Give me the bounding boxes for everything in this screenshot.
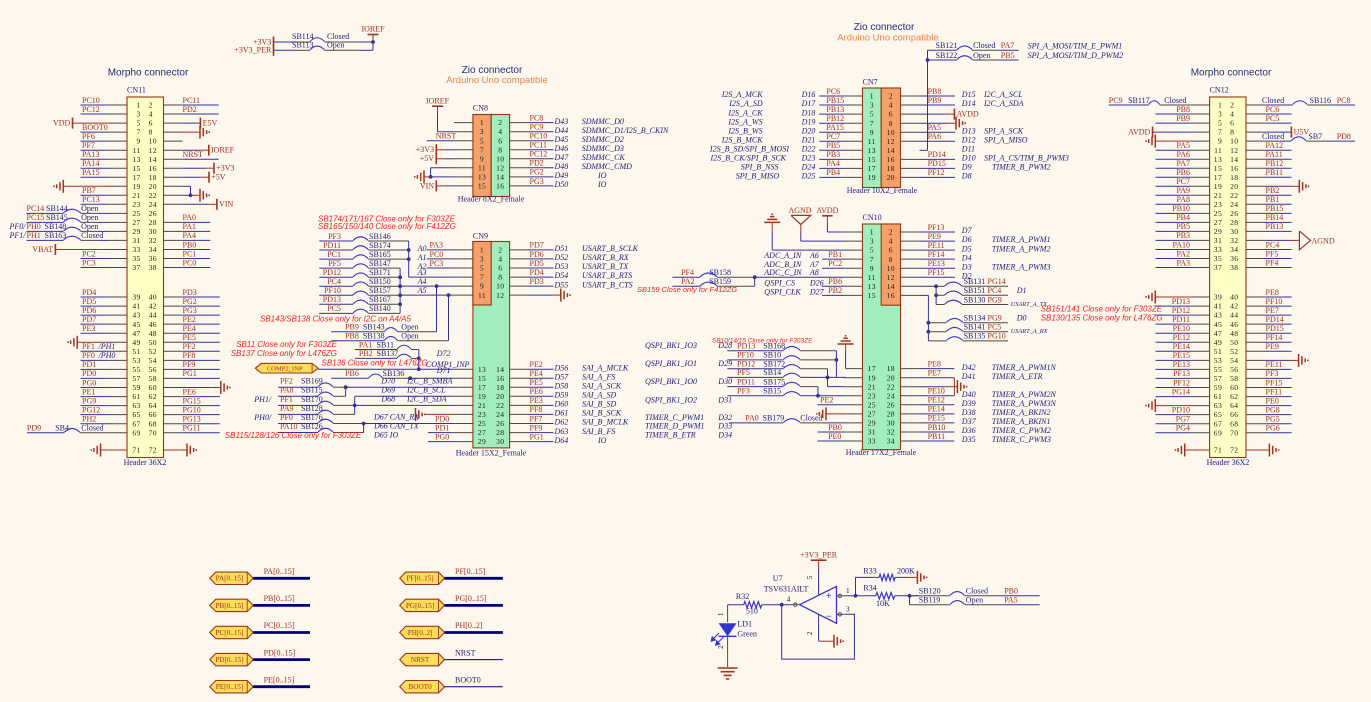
junction pin19 node (826, 376, 830, 380)
svg-text:PE0: PE0 (1266, 396, 1279, 405)
wire CN11 pins 20-22 ground tie (164, 186, 191, 195)
solder bridge SB171 net PD12 (319, 268, 400, 277)
CN12 pin 33 net PA10 (1156, 240, 1210, 249)
svg-text:13: 13 (868, 282, 876, 291)
svg-text:PG[0..15]: PG[0..15] (455, 594, 487, 603)
CN11 pin 31 net PH1 solder bridge SB163 (9, 231, 128, 240)
CN11 pin 9 net PF6 (81, 132, 128, 141)
svg-text:D64: D64 (554, 436, 569, 445)
svg-text:PC5: PC5 (988, 323, 1002, 332)
svg-text:D59: D59 (554, 391, 569, 400)
svg-text:PF13: PF13 (928, 223, 945, 232)
svg-text:PE6: PE6 (530, 387, 543, 396)
svg-text:D20: D20 (801, 126, 816, 135)
svg-text:12: 12 (149, 146, 157, 155)
solder bridge SB122 net PB5 SPI_A_MOSI/TIM_D_PWM2 (928, 51, 1124, 60)
svg-text:PF15: PF15 (928, 268, 945, 277)
CN11 pin 53 net PF0/PH0 (81, 351, 128, 360)
svg-text:32: 32 (887, 428, 895, 437)
svg-text:PB0: PB0 (1004, 587, 1018, 596)
svg-text:15: 15 (1214, 164, 1222, 173)
ground at CN11 pin 49 (67, 336, 127, 349)
svg-text:28: 28 (1230, 218, 1238, 227)
CN8 pin 2 net PC8 D43 SDMMC_D0 (510, 113, 624, 125)
svg-text:PC9: PC9 (1109, 96, 1123, 105)
svg-text:PA3: PA3 (430, 241, 444, 250)
junction R33/R34 node (854, 594, 858, 598)
svg-text:6: 6 (498, 136, 502, 145)
svg-text:Arduino Uno compatible: Arduino Uno compatible (837, 33, 938, 44)
svg-text:D37: D37 (961, 417, 977, 426)
svg-text:PF7: PF7 (530, 414, 543, 423)
svg-text:PB8: PB8 (345, 332, 359, 341)
svg-text:SDMMC_D0: SDMMC_D0 (582, 117, 624, 126)
svg-text:D35: D35 (961, 435, 976, 444)
svg-text:37: 37 (132, 263, 140, 272)
CN7 pin 2 net PB8 D15 I2C_A_SCL (901, 87, 1024, 99)
CN12 pin 19 net PC7 (1156, 177, 1210, 186)
svg-text:D36: D36 (961, 426, 976, 435)
CN9 pin 9 node A4 (400, 277, 473, 286)
solder bridge SB135 net PG10 (928, 332, 1008, 341)
power AVDD at CN10 pin 1 (816, 206, 862, 232)
svg-text:27: 27 (868, 410, 876, 419)
solder bridge SB175 net PD11 (645, 377, 800, 387)
svg-text:SB151: SB151 (964, 286, 986, 295)
note SB130/135 Close only for L476ZG (1041, 314, 1163, 323)
LED LD1 pin 1 number (716, 612, 725, 616)
CN12 pin 70 net PG6 (1246, 424, 1292, 433)
svg-text:PE15: PE15 (928, 414, 945, 423)
svg-text:PC8: PC8 (1337, 96, 1351, 105)
svg-text:7: 7 (1218, 128, 1222, 137)
svg-text:SB163: SB163 (45, 231, 67, 240)
svg-text:+5V: +5V (420, 154, 435, 163)
svg-text:3: 3 (137, 110, 141, 119)
CN12 pin 50 net PF14 (1246, 333, 1292, 342)
svg-text:PG4: PG4 (1176, 424, 1190, 433)
svg-text:12: 12 (496, 291, 504, 300)
svg-text:15: 15 (132, 164, 140, 173)
power AGND at CN10 pin 3 (788, 206, 862, 241)
svg-text:PA15: PA15 (826, 123, 844, 132)
svg-text:26: 26 (149, 209, 157, 218)
svg-text:23: 23 (132, 200, 140, 209)
U7 pin 3 inverting stub (837, 604, 851, 616)
svg-text:PD7: PD7 (530, 241, 544, 250)
svg-text:PA0: PA0 (745, 414, 759, 423)
svg-text:D15: D15 (961, 90, 976, 99)
svg-text:8: 8 (498, 273, 502, 282)
svg-text:PE6: PE6 (183, 387, 196, 396)
svg-text:17: 17 (132, 173, 140, 182)
wire U7 pin1 to node (844, 595, 875, 597)
solder bridge SB147 net PF5 (319, 259, 400, 268)
earth ground at CN10 pin 5 (764, 213, 862, 250)
svg-text:D52: D52 (554, 253, 569, 262)
port PD[0..15] (210, 653, 253, 665)
U7 pin 4 output-left stub (787, 595, 800, 607)
bus PE[0..15] (253, 675, 310, 686)
ground at CN8 pin 13 (414, 170, 431, 183)
svg-text:TIMER_D_PWM1: TIMER_D_PWM1 (645, 422, 705, 431)
svg-text:34: 34 (887, 437, 895, 446)
svg-text:6: 6 (149, 119, 153, 128)
svg-text:4: 4 (889, 101, 893, 110)
svg-text:11: 11 (868, 273, 876, 282)
svg-text:SB15: SB15 (763, 387, 781, 396)
svg-text:QSPI_BK1_IO2: QSPI_BK1_IO2 (645, 395, 697, 404)
CN11 pin 52 net PF2 (164, 342, 220, 351)
svg-text:Morpho connector: Morpho connector (108, 68, 189, 79)
junction IOREF node (371, 40, 375, 44)
svg-text:PF10: PF10 (737, 351, 754, 360)
svg-text:PB9: PB9 (345, 323, 359, 332)
svg-text:13: 13 (478, 173, 486, 182)
power +3V3 at CN11 pin 16 (164, 163, 235, 174)
svg-text:PF11: PF11 (1266, 387, 1283, 396)
solder bridge SB11 net PA1 (355, 340, 419, 349)
svg-text:SB158: SB158 (709, 268, 731, 277)
svg-text:24: 24 (887, 391, 895, 400)
svg-text:15: 15 (868, 155, 876, 164)
svg-text:12: 12 (496, 163, 504, 172)
svg-text:PA0: PA0 (183, 213, 197, 222)
CN10 pin 2 net PF13 D7 (901, 223, 973, 235)
svg-text:PB10: PB10 (1172, 204, 1190, 213)
CN10 pin 26 net PE12 D39 TIMER_A_PWM3N (901, 396, 1057, 408)
svg-text:10: 10 (149, 137, 157, 146)
svg-text:IO: IO (597, 436, 607, 445)
CN11 pin 55 net PD1 (81, 360, 128, 369)
svg-text:D5: D5 (961, 244, 972, 253)
solder bridge SB143 net PB9 (331, 323, 436, 332)
CN11 pin 28 net PA0 (164, 213, 211, 222)
svg-text:D51: D51 (554, 244, 569, 253)
svg-text:PB7: PB7 (82, 186, 96, 195)
CN12 pin 26 net PB15 (1246, 204, 1292, 213)
svg-text:D31: D31 (717, 395, 732, 404)
CN12 pin 45 net PD11 (1156, 315, 1210, 324)
CN12 pin 24 net PB1 (1246, 195, 1292, 204)
ground at CN12 pin 54 (1246, 354, 1309, 367)
junction SB174 output (407, 248, 411, 252)
svg-text:71: 71 (132, 446, 140, 455)
port BOOT0 (400, 681, 445, 693)
svg-text:1: 1 (716, 612, 725, 616)
svg-text:PE0: PE0 (828, 432, 841, 441)
svg-text:D67 CAN_RX: D67 CAN_RX (373, 413, 420, 422)
svg-text:PB9: PB9 (928, 96, 942, 105)
svg-text:D66 CAN_TX: D66 CAN_TX (373, 422, 420, 431)
CN9 pin 4 net PD6 D52 USART_B_RX (510, 250, 630, 262)
wire +3V3_PER to SB113 (274, 49, 311, 51)
svg-text:SB150: SB150 (369, 277, 391, 286)
svg-text:D13: D13 (961, 126, 976, 135)
svg-text:Header 15X2_Female: Header 15X2_Female (456, 448, 527, 457)
svg-text:R34: R34 (863, 583, 876, 592)
svg-text:PB2: PB2 (828, 286, 842, 295)
svg-text:D0: D0 (1016, 314, 1027, 323)
wire SB175 lead (800, 386, 818, 388)
title Morpho connector (right) (1191, 68, 1272, 79)
svg-text:I2S_B_WS: I2S_B_WS (727, 126, 762, 135)
power +5V at CN8 pin 9 (420, 153, 473, 164)
svg-text:PD14: PD14 (928, 150, 946, 159)
power VDD at CN11 pin 5 (53, 118, 127, 129)
svg-text:1: 1 (870, 228, 874, 237)
svg-text:D9: D9 (961, 163, 972, 172)
svg-text:41: 41 (1214, 302, 1222, 311)
svg-text:33: 33 (132, 245, 140, 254)
svg-text:PD0: PD0 (435, 414, 449, 423)
svg-text:70: 70 (149, 428, 157, 437)
svg-text:SB143/SB138 Close only for I2C: SB143/SB138 Close only for I2C on A4/A5 (260, 315, 411, 324)
svg-text:D61: D61 (554, 409, 569, 418)
note SB137 Close only for L476ZG (231, 349, 337, 358)
svg-text:64: 64 (149, 401, 157, 410)
connector CN10 Header 17X2_Female body (863, 224, 901, 450)
svg-text:PB5: PB5 (826, 141, 840, 150)
svg-text:PE15: PE15 (1173, 351, 1190, 360)
CN12 pin 4 net PC6 (1246, 105, 1292, 114)
solder bridge SB134 net PG9 D0 (928, 314, 1026, 323)
svg-text:55: 55 (1214, 365, 1222, 374)
CN12 pin 6 net PC5 (1246, 114, 1292, 123)
svg-text:7: 7 (137, 128, 141, 137)
note SB159 Close only for F412ZG (637, 285, 737, 294)
svg-text:PA3: PA3 (1177, 258, 1191, 267)
svg-text:PC15: PC15 (27, 213, 45, 222)
CN12 Header 36X2 label (1207, 458, 1250, 467)
svg-text:Closed: Closed (1164, 96, 1186, 105)
CN11 pin 43 net PD6 (81, 306, 128, 315)
svg-text:5: 5 (480, 264, 484, 273)
svg-text:14: 14 (496, 173, 504, 182)
solder bridge SB157 net PF10 (319, 286, 400, 295)
svg-text:Header 36X2: Header 36X2 (124, 458, 167, 467)
svg-text:SB115: SB115 (301, 386, 323, 395)
svg-text:COMP2_INP: COMP2_INP (267, 366, 303, 373)
junction CN11 pin 22 node (189, 193, 193, 197)
CN11 pin 32 net PA4 (164, 231, 211, 240)
svg-text:CN9: CN9 (473, 232, 488, 241)
svg-text:6: 6 (498, 264, 502, 273)
svg-text:PG12: PG12 (82, 405, 100, 414)
svg-text:QSPI_CS: QSPI_CS (764, 278, 795, 287)
svg-text:PF2: PF2 (280, 377, 293, 386)
svg-text:PG13: PG13 (183, 415, 201, 424)
CN10 pin 19 wire (800, 376, 862, 378)
wire vertical A0-A2 sources to pin7 (408, 241, 410, 277)
svg-text:47: 47 (1214, 329, 1222, 338)
CN9 designator (473, 232, 488, 241)
svg-text:10: 10 (1230, 137, 1238, 146)
svg-text:SB122: SB122 (936, 51, 958, 60)
CN9 pin 5 net PC3 node A2 (417, 259, 473, 271)
svg-text:D4: D4 (961, 253, 972, 262)
svg-text:PD10: PD10 (1172, 405, 1190, 414)
svg-text:PA14: PA14 (82, 159, 100, 168)
svg-text:CN10: CN10 (863, 213, 882, 222)
svg-text:AVDD: AVDD (957, 110, 979, 119)
CN10 pin 9 net PC2 node ADC_B_IN A7 (763, 259, 862, 269)
svg-text:37: 37 (1214, 263, 1222, 272)
svg-text:PB12: PB12 (826, 114, 844, 123)
svg-text:D23: D23 (801, 154, 816, 163)
svg-text:TIMER_A_PWM2: TIMER_A_PWM2 (992, 244, 1051, 253)
svg-text:PA7: PA7 (1177, 159, 1191, 168)
svg-text:PB8: PB8 (928, 87, 942, 96)
port COMP2_INP (255, 363, 318, 373)
CN12 pin 37 net PA3 (1156, 258, 1210, 267)
svg-text:PD5: PD5 (530, 259, 544, 268)
svg-text:20: 20 (149, 182, 157, 191)
svg-text:D68: D68 (380, 394, 395, 403)
connector CN11 Header 36X2 body (127, 97, 164, 458)
svg-text:PC7: PC7 (826, 132, 840, 141)
svg-text:IO: IO (597, 171, 607, 180)
connector CN9 Header 15X2_Female body (473, 242, 510, 448)
svg-text:40: 40 (149, 293, 157, 302)
wire SB172 down to pin19 row (827, 369, 829, 378)
solder bridge SB179 net PA0 D32 TIMER_C_PWM1 (645, 413, 863, 423)
svg-text:2: 2 (498, 118, 502, 127)
CN7 pin 4 net PB9 D14 I2C_A_SDA (901, 96, 1024, 108)
junction A4 to SB143 (435, 284, 439, 288)
wire SB170/SB128 tie vertical (354, 396, 356, 414)
svg-text:45: 45 (1214, 320, 1222, 329)
svg-text:29: 29 (1214, 227, 1222, 236)
CN11 pin numbers 1-72 (132, 101, 156, 455)
svg-text:PF13: PF13 (1173, 369, 1190, 378)
svg-text:10: 10 (496, 282, 504, 291)
CN11 Header 36X2 label (124, 458, 167, 467)
svg-text:SB157: SB157 (369, 286, 391, 295)
svg-text:14: 14 (887, 146, 895, 155)
CN11 pin 3 net PC12 (81, 105, 128, 114)
wire vertical A4/A5 sources (399, 268, 401, 313)
CN7 pin 7 net PB12 D19 I2S_A_WS (727, 114, 862, 126)
port PH[0..2] (400, 626, 445, 638)
svg-text:D45: D45 (554, 135, 569, 144)
svg-text:+3V3_PER: +3V3_PER (234, 46, 272, 55)
svg-text:SB131: SB131 (964, 277, 986, 286)
junction SB165 output (407, 257, 411, 261)
svg-text:D48: D48 (554, 162, 569, 171)
ground at CN12 pin 72 (1246, 444, 1280, 457)
CN8 pin 8 net PC11 D46 SDMMC_D3 (510, 141, 624, 153)
svg-text:8: 8 (889, 119, 893, 128)
svg-text:A1: A1 (417, 253, 427, 262)
svg-text:PE12: PE12 (928, 396, 945, 405)
solder bridge SB167 net PD13 (319, 295, 400, 304)
svg-text:PC14: PC14 (27, 204, 45, 213)
svg-text:I2S_A_SD: I2S_A_SD (728, 99, 763, 108)
svg-text:23: 23 (868, 391, 876, 400)
svg-text:59: 59 (132, 383, 140, 392)
svg-text:5: 5 (805, 575, 814, 579)
wire SB114 to IOREF node (359, 41, 373, 43)
CN8 pin 5 net NRST (427, 132, 473, 141)
svg-text:PC6: PC6 (1266, 105, 1280, 114)
wire NRST (445, 648, 503, 659)
LED emission arrows (711, 633, 723, 645)
solder bridge SB170 net PF1 (253, 395, 354, 406)
svg-text:SB165/150/140 Close only for F: SB165/150/140 Close only for F412ZG (318, 222, 456, 231)
CN9 pin 24 net PF8 D61 SAI_B_SCK (510, 405, 622, 417)
svg-text:PB2: PB2 (1266, 186, 1280, 195)
svg-text:58: 58 (149, 374, 157, 383)
ground at CN10 pin 27 (816, 407, 863, 420)
svg-text:Open: Open (81, 204, 98, 213)
svg-text:PE[0..15]: PE[0..15] (216, 683, 244, 691)
svg-text:1: 1 (1218, 101, 1222, 110)
CN12 pin 22 net PB2 (1246, 186, 1292, 195)
svg-text:30: 30 (1230, 227, 1238, 236)
svg-text:1: 1 (846, 586, 850, 595)
svg-text:PH[0..2]: PH[0..2] (455, 621, 483, 630)
svg-text:31: 31 (868, 428, 876, 437)
svg-text:PF[0..15]: PF[0..15] (455, 567, 486, 576)
svg-text:SB138: SB138 (363, 332, 385, 341)
svg-text:TIMER_B_PWM2: TIMER_B_PWM2 (992, 163, 1051, 172)
svg-text:36: 36 (1230, 254, 1238, 263)
svg-text:1: 1 (480, 118, 484, 127)
CN10 pin 23 wire (800, 395, 862, 397)
svg-text:PB[0..15]: PB[0..15] (216, 602, 244, 610)
CN9 pin numbers 1-30 (478, 246, 505, 447)
junction D68 node (353, 404, 357, 408)
svg-text:9: 9 (870, 128, 874, 137)
svg-text:2: 2 (1230, 101, 1234, 110)
svg-text:22: 22 (149, 191, 157, 200)
svg-text:SB147: SB147 (369, 259, 391, 268)
svg-text:PE8: PE8 (928, 359, 941, 368)
svg-text:4: 4 (787, 595, 791, 604)
svg-text:D43: D43 (554, 117, 569, 126)
svg-text:PF1: PF1 (280, 395, 293, 404)
svg-text:PD14: PD14 (1266, 315, 1284, 324)
svg-text:PA12: PA12 (1266, 141, 1284, 150)
CN11 pin 1 net PC10 (81, 96, 128, 105)
svg-text:D50: D50 (554, 180, 569, 189)
CN11 pin 29 net PH0 solder bridge SB148 (9, 222, 128, 231)
svg-text:PE2: PE2 (820, 396, 833, 405)
svg-text:24: 24 (496, 410, 504, 419)
svg-text:PA13: PA13 (82, 150, 100, 159)
svg-text:SB120: SB120 (919, 587, 941, 596)
svg-text:PE4: PE4 (183, 324, 196, 333)
svg-text:65: 65 (132, 410, 140, 419)
svg-text:SAI_A_SD: SAI_A_SD (582, 391, 616, 400)
svg-text:PA9: PA9 (1177, 186, 1191, 195)
CN12 pin 40 net PE8 (1246, 288, 1292, 297)
junction SB10 node (835, 358, 839, 362)
CN11 designator (127, 86, 146, 95)
svg-text:BOOT0: BOOT0 (409, 683, 433, 691)
svg-text:14: 14 (496, 365, 504, 374)
svg-text:PD8: PD8 (1337, 132, 1351, 141)
svg-text:I2S_B_SD/SPI_B_MOSI: I2S_B_SD/SPI_B_MOSI (709, 145, 789, 154)
CN12 pin 49 net PE12 (1156, 333, 1210, 342)
svg-text:PA1: PA1 (359, 340, 373, 349)
svg-text:6: 6 (889, 246, 893, 255)
svg-text:SB130/135 Close only for L476Z: SB130/135 Close only for L476ZG (1041, 314, 1163, 323)
svg-text:PD3: PD3 (530, 277, 544, 286)
CN9 pin 10 net PD3 D55 USART_B_CTS (510, 277, 633, 289)
svg-text:5: 5 (137, 119, 141, 128)
